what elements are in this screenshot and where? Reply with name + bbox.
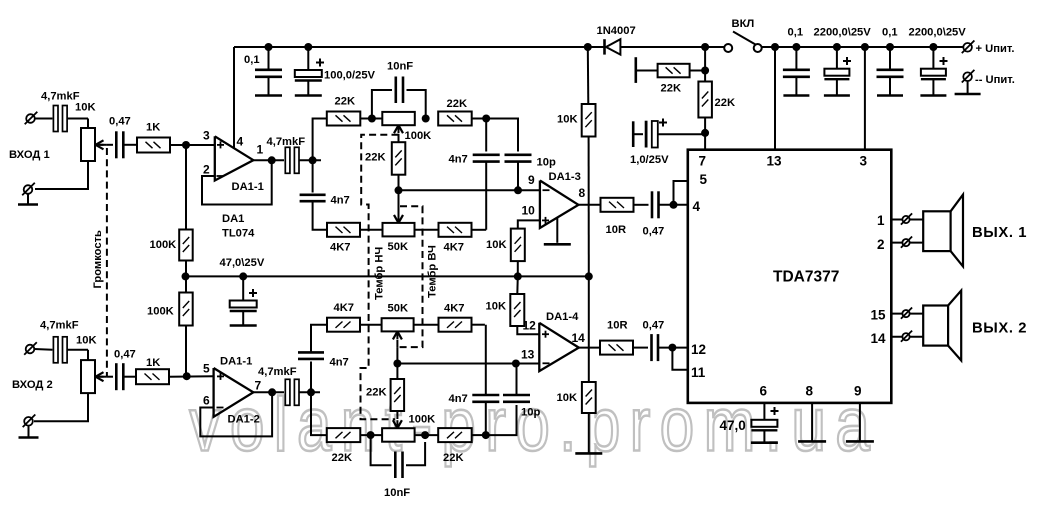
- label DA1-4: [546, 311, 579, 323]
- resistor 100K bias ch2: [179, 293, 193, 326]
- resistor 10R ch2: [600, 341, 633, 355]
- svg-text:0,1: 0,1: [244, 54, 260, 66]
- wire cap to pot 1: [67, 119, 88, 129]
- watermark volant-pro.prom.ua: [189, 382, 879, 467]
- label 0,47: [643, 226, 665, 238]
- resistor 10K divider lower: [582, 382, 596, 413]
- ground pin 9: [846, 440, 874, 443]
- node DA1-2 out: [268, 388, 276, 396]
- node F1 minus junction: [395, 186, 403, 194]
- op-amp DA1-3: [540, 181, 579, 229]
- svg-text:100K: 100K: [405, 130, 432, 142]
- resistor 22K standby-V: [698, 82, 712, 118]
- label 100,0/25V: [324, 70, 376, 82]
- label 10p: [537, 157, 556, 169]
- wire mid rail to 10K DA1-4: [516, 276, 519, 294]
- wire 100K to mid rail: [185, 261, 187, 277]
- label 0,47: [114, 349, 136, 361]
- svg-text:DA1-4: DA1-4: [546, 311, 579, 323]
- label 10K: [486, 301, 507, 313]
- capacitor 0,1 opamp rail: [255, 70, 282, 95]
- label + Uпит.: [976, 43, 1015, 55]
- svg-text:1N4007: 1N4007: [597, 25, 636, 37]
- wire 10p to minus wire ch1: [517, 162, 519, 191]
- svg-text:10K: 10K: [486, 239, 507, 251]
- label 50K: [388, 303, 409, 315]
- terminal pin 1: [901, 213, 912, 224]
- capacitor 2200,0\25V b: [921, 47, 948, 95]
- wire E1 to 10p corner: [486, 119, 518, 152]
- label 100K: [405, 130, 432, 142]
- label 10K: [75, 102, 96, 114]
- label pin 15: [871, 308, 887, 323]
- dashed mechanical link bass (Тембр НЧ): [361, 135, 399, 420]
- svg-text:22K: 22K: [661, 83, 682, 95]
- label DA1: [222, 213, 244, 225]
- label 47,0\25V rail: [220, 257, 265, 269]
- svg-text:10p: 10p: [521, 407, 540, 419]
- label pin 7: [699, 154, 707, 169]
- label 0,47: [109, 116, 131, 128]
- label 100K: [409, 414, 436, 426]
- svg-text:10R: 10R: [606, 224, 627, 236]
- wire 22K to pot ch2: [360, 434, 382, 436]
- wire 10nF right leg ch2: [406, 442, 425, 465]
- label 4,7mkF: [258, 366, 297, 378]
- wire B1 up to bass row: [313, 119, 327, 161]
- svg-text:DA1-1: DA1-1: [232, 181, 264, 193]
- label 4K7: [444, 303, 465, 315]
- wire DA1-2 output: [253, 391, 284, 393]
- svg-text:4n7: 4n7: [330, 357, 349, 369]
- label ВЫХ. 1: [972, 225, 1027, 241]
- node switch out: [771, 43, 779, 51]
- label 22K: [715, 97, 736, 109]
- svg-text:8: 8: [579, 186, 586, 200]
- label pin 4: [693, 199, 701, 214]
- capacitor 10p ch2: [503, 395, 530, 402]
- capacitor 0,1 supply a: [783, 47, 810, 95]
- svg-text:100,0/25V: 100,0/25V: [324, 70, 376, 82]
- capacitor 10nF ch1: [396, 77, 403, 104]
- ground 0,1: [255, 94, 282, 97]
- wire wiper to minus node ch2: [396, 347, 398, 363]
- label 10K: [76, 335, 97, 347]
- resistor 10K bias DA1-3: [511, 229, 525, 262]
- svg-text:1,0/25V: 1,0/25V: [630, 154, 669, 166]
- switch ВКЛ: [724, 32, 762, 53]
- label 22K: [661, 83, 682, 95]
- label pin 10: [522, 204, 536, 218]
- capacitor 2200,0\25V a: [824, 47, 851, 95]
- svg-text:4,7mkF: 4,7mkF: [258, 366, 297, 378]
- wire 10K lower to ground: [588, 413, 590, 453]
- wire pin 15: [891, 313, 923, 315]
- svg-text:4K7: 4K7: [330, 242, 351, 254]
- label pin 8: [579, 186, 586, 200]
- label pin 3: [860, 154, 868, 169]
- wire 22K-vert to 100K ch2: [393, 411, 402, 428]
- label 22K: [366, 387, 387, 399]
- label 50K: [388, 241, 409, 253]
- svg-text:DA1-1: DA1-1: [220, 356, 252, 368]
- label 2200,0\25V: [814, 27, 872, 39]
- wire DA1-1 feedback pin2 loop: [202, 160, 272, 204]
- resistor 22K bass-out ch1: [438, 112, 472, 126]
- terminal input 1 hot: [25, 112, 53, 125]
- wire 4K7 to 50K ch2: [360, 324, 382, 326]
- node mid-rail 10K bias: [514, 272, 522, 280]
- wire E2 up through 4n7: [485, 402, 487, 435]
- op-amp DA1-4: [539, 323, 579, 371]
- wire 10K to plus input DA1-4: [517, 326, 539, 334]
- svg-text:14: 14: [572, 331, 586, 345]
- wire 10K to mid rail: [517, 261, 519, 276]
- ground divider: [575, 452, 602, 455]
- svg-text:Тембр ВЧ: Тембр ВЧ: [427, 245, 439, 298]
- wire 10K to mid rail (crosses out wire): [588, 136, 590, 276]
- label pin 9: [528, 173, 535, 187]
- wire pin 1: [891, 219, 923, 221]
- svg-text:3: 3: [860, 154, 868, 169]
- label 4K7: [330, 242, 351, 254]
- svg-text:ВХОД 1: ВХОД 1: [9, 149, 50, 161]
- svg-text:5: 5: [700, 172, 708, 187]
- svg-text:14: 14: [871, 331, 887, 346]
- resistor 4K7 treble-in ch1: [327, 223, 360, 237]
- label 10R: [606, 224, 627, 236]
- label 4n7: [449, 154, 468, 166]
- ground pin6 cap: [751, 441, 778, 444]
- ground 100,0: [295, 94, 322, 97]
- label pin 13: [767, 154, 783, 169]
- label ВЫХ. 2: [972, 321, 1027, 337]
- label pin 6: [760, 384, 768, 399]
- node rail 0,1 b: [886, 43, 894, 51]
- label pin 2: [877, 237, 885, 252]
- svg-text:13: 13: [767, 154, 783, 169]
- svg-text:10: 10: [522, 204, 536, 218]
- svg-text:0,47: 0,47: [643, 320, 665, 332]
- wire DA1-1 output: [253, 159, 284, 161]
- node mid-rail 47,0\25V bias rail: [186, 275, 589, 277]
- wire cap to 1K ch1: [123, 144, 137, 146]
- label 2200,0\25V: [909, 27, 967, 39]
- terminal bar 1,0 gnd: [632, 121, 635, 147]
- label 22K: [365, 152, 386, 164]
- svg-text:4: 4: [693, 199, 701, 214]
- wire pin 8: [811, 403, 813, 441]
- label 10p: [521, 407, 540, 419]
- wire bar to 1,0 cap: [633, 133, 643, 135]
- label 10K: [557, 114, 578, 126]
- label pin 8: [806, 384, 814, 399]
- svg-text:4,7mkF: 4,7mkF: [40, 320, 79, 332]
- wire 50K to 4K7 ch1: [415, 229, 439, 231]
- label Тембр НЧ (rotated): [374, 247, 386, 300]
- svg-text:15: 15: [871, 308, 887, 323]
- wire top rail switch-to-terminal: [762, 46, 963, 48]
- svg-text:-- Uпит.: -- Uпит.: [975, 74, 1015, 86]
- label 10R: [607, 320, 628, 332]
- label 4,7mkF: [267, 136, 306, 148]
- wire 4K7 right to 4n7 column ch1: [472, 229, 487, 231]
- potentiometer 10K volume 1: [81, 128, 107, 161]
- capacitor 0,1 supply b: [877, 47, 904, 95]
- svg-text:22K: 22K: [365, 152, 386, 164]
- capacitor 47,0 pin6: [751, 407, 778, 442]
- wire 0,47 to pin4: [659, 204, 688, 206]
- label 22K: [447, 98, 468, 110]
- svg-text:13: 13: [521, 348, 535, 362]
- wire 10R to 0,47: [634, 204, 649, 206]
- label 4n7: [449, 393, 468, 405]
- svg-text:DA1-2: DA1-2: [228, 414, 260, 426]
- label pin 14: [572, 331, 586, 345]
- wire pin5 loop: [674, 181, 688, 205]
- svg-text:ВХОД 2: ВХОД 2: [12, 379, 53, 391]
- svg-text:ВЫХ. 2: ВЫХ. 2: [972, 321, 1027, 337]
- svg-text:6: 6: [203, 394, 210, 408]
- wire 0,1 cap drop: [268, 47, 270, 69]
- svg-text:22K: 22K: [332, 452, 353, 464]
- wire 22K to pot: [360, 118, 382, 120]
- potentiometer 50K treble ch1: [383, 223, 415, 237]
- IC U1 TDA7377 body: [688, 150, 892, 403]
- label 100K: [147, 306, 174, 318]
- svg-text:0,1: 0,1: [788, 27, 804, 39]
- ground -Uпит: [955, 93, 981, 96]
- label 10nF: [387, 61, 413, 73]
- ground 47,0 cap: [230, 324, 257, 327]
- svg-text:+ Uпит.: + Uпит.: [976, 43, 1015, 55]
- label 47,0: [720, 418, 746, 433]
- node B1: [309, 156, 317, 164]
- terminal pin 2: [901, 237, 912, 248]
- svg-text:4n7: 4n7: [449, 393, 468, 405]
- capacitor 1,0/25V: [646, 119, 667, 148]
- label ВХОД 2: [12, 379, 53, 391]
- wire DA1-2 feedback pin6 loop: [200, 392, 272, 436]
- ground pin 8: [798, 440, 826, 443]
- wire pin 6: [763, 403, 765, 420]
- op-amp DA1-1: [215, 136, 254, 180]
- resistor 10K divider upper: [582, 104, 596, 137]
- label 10K: [486, 239, 507, 251]
- label 1N4007: [597, 25, 636, 37]
- svg-text:1K: 1K: [146, 122, 160, 134]
- svg-text:TDA7377: TDA7377: [773, 269, 839, 286]
- svg-text:Тембр НЧ: Тембр НЧ: [374, 247, 386, 300]
- svg-text:47,0\25V: 47,0\25V: [220, 257, 265, 269]
- resistor 100K bias ch1: [179, 230, 193, 261]
- terminal pin 14: [901, 331, 912, 342]
- ground DA1-3: [544, 217, 571, 244]
- svg-text:9: 9: [854, 384, 862, 399]
- resistor 22K bass-in ch1: [327, 112, 361, 126]
- label pin 4: [237, 135, 244, 149]
- capacitor 0,47 ch1: [116, 131, 123, 158]
- label TL074: [222, 228, 255, 240]
- capacitor 4n7 ch1 right: [473, 155, 500, 162]
- wire mid rail to 100K: [185, 276, 187, 292]
- wire mid rail down to 10K lower: [588, 276, 590, 382]
- dashed mechanical link volume: [106, 148, 108, 377]
- wire 22K-vert top ch2: [396, 364, 398, 380]
- capacitor 0,47 out ch2: [652, 334, 659, 361]
- ground input 1: [18, 203, 38, 206]
- node rail 2200 b: [929, 43, 937, 51]
- label pin 14: [871, 331, 887, 346]
- svg-text:10nF: 10nF: [387, 61, 413, 73]
- svg-text:4,7mkF: 4,7mkF: [41, 91, 80, 103]
- wire minus bus ch2: [397, 363, 539, 365]
- label 4n7: [331, 195, 350, 207]
- terminal -Uпит: [962, 70, 975, 94]
- svg-text:TL074: TL074: [222, 228, 255, 240]
- resistor 1K ch1: [137, 138, 170, 153]
- node C2 junction: [367, 431, 375, 439]
- svg-text:22K: 22K: [447, 98, 468, 110]
- node 1,0 cap junction: [701, 129, 709, 137]
- node D2 junction: [421, 431, 429, 439]
- label pin 11: [691, 365, 706, 380]
- svg-text:10K: 10K: [557, 114, 578, 126]
- label 4K7: [444, 242, 465, 254]
- svg-text:DA1: DA1: [222, 213, 244, 225]
- potentiometer 10K volume 2: [81, 360, 107, 393]
- capacitor 4,7mkF coupling ch1: [285, 147, 299, 173]
- svg-text:4n7: 4n7: [449, 154, 468, 166]
- wire 4K7 to 50K ch1: [360, 229, 383, 231]
- label pin 7: [255, 379, 262, 393]
- ground 2200 b: [920, 94, 946, 97]
- wire pin11 loop: [672, 348, 687, 370]
- wire pin 9: [859, 403, 861, 441]
- svg-text:50K: 50K: [388, 303, 409, 315]
- svg-text:4,7mkF: 4,7mkF: [267, 136, 306, 148]
- node pin12 junction: [668, 344, 676, 352]
- wire E2 to 10p corner ch2: [486, 405, 517, 435]
- svg-text:0,1: 0,1: [882, 27, 898, 39]
- label 0,1: [244, 54, 260, 66]
- capacitor 4n7 ch2 right: [472, 395, 499, 402]
- wire bar to 22K: [636, 70, 658, 72]
- svg-text:7: 7: [699, 154, 707, 169]
- label Тембр ВЧ (rotated): [427, 245, 439, 298]
- wire pin 14: [891, 336, 923, 338]
- svg-text:6: 6: [760, 384, 768, 399]
- node rail 0,1 a: [792, 43, 800, 51]
- svg-text:4K7: 4K7: [444, 303, 465, 315]
- ground input 2: [19, 436, 39, 439]
- svg-text:10R: 10R: [607, 320, 628, 332]
- label pin 1: [257, 143, 264, 157]
- node rail after diode: [701, 43, 709, 51]
- wire 10p to minus wire ch2: [516, 364, 518, 396]
- capacitor 4n7 ch1 left: [300, 195, 326, 201]
- wire 22K to node: [690, 70, 706, 72]
- label 10K: [557, 392, 578, 404]
- svg-text:11: 11: [691, 365, 706, 380]
- terminal input 2 hot: [24, 342, 52, 355]
- wire minus bus ch1: [399, 189, 540, 191]
- node rail-100,0: [304, 43, 312, 51]
- node E2 junction: [482, 431, 490, 439]
- wire 1K to node A1: [170, 144, 215, 146]
- wire DA1-3 output: [578, 204, 600, 206]
- wire B2 up to 4n7: [310, 362, 312, 393]
- svg-text:1: 1: [257, 143, 264, 157]
- wire pot2 wiper to cap 0,47: [107, 376, 113, 378]
- svg-text:9: 9: [528, 173, 535, 187]
- label pin 3: [203, 129, 210, 143]
- svg-text:12: 12: [691, 342, 706, 357]
- node rail-divider: [584, 43, 592, 51]
- label DA1-3: [549, 171, 581, 183]
- node 10p minus junction ch2: [512, 360, 520, 368]
- svg-text:4: 4: [237, 135, 244, 149]
- label ВХОД 1: [9, 149, 50, 161]
- resistor 4K7 treble-out ch2: [439, 318, 472, 332]
- terminal pin 15: [901, 308, 912, 319]
- node A1 junction: [182, 141, 190, 149]
- label 4n7: [330, 357, 349, 369]
- svg-text:0,47: 0,47: [643, 226, 665, 238]
- label pin 5: [203, 362, 210, 376]
- op-amp DA1-2: [214, 368, 254, 417]
- capacitor 4,7mkF input 2: [53, 337, 67, 363]
- resistor 10K bias DA1-4: [510, 294, 524, 326]
- wire +V top rail (left section): [234, 47, 605, 148]
- label pin 13: [521, 348, 535, 362]
- wire 0,47 to pin12: [658, 347, 688, 349]
- wire 10nF right leg ch1: [407, 90, 426, 119]
- capacitor 100,0/25V: [295, 59, 324, 96]
- wire 22K to pin7 node: [704, 118, 706, 151]
- svg-text:10nF: 10nF: [384, 487, 410, 499]
- svg-text:10K: 10K: [557, 392, 578, 404]
- wire pin 2: [891, 242, 923, 244]
- node rail pin3: [861, 43, 869, 51]
- resistor 22K bass-in ch2: [327, 428, 361, 442]
- svg-text:100K: 100K: [147, 306, 174, 318]
- wire rail to 22K node: [704, 47, 706, 82]
- label pin 12: [523, 319, 537, 333]
- node pin4 junction: [670, 201, 678, 209]
- svg-text:4K7: 4K7: [334, 302, 355, 314]
- label 10nF: [384, 487, 410, 499]
- wire 4n7 to treble row ch1: [313, 201, 327, 230]
- svg-text:2200,0\25V: 2200,0\25V: [814, 27, 872, 39]
- wire 100,0 cap drop: [307, 47, 309, 70]
- node rail-0,1: [265, 43, 273, 51]
- wire 1,0 to node: [658, 133, 705, 135]
- wire 10nF left leg ch1: [372, 90, 392, 119]
- label 0,47: [643, 320, 665, 332]
- svg-text:4n7: 4n7: [331, 195, 350, 207]
- wire 4n7 to treble row right ch1: [485, 162, 487, 230]
- capacitor 4,7mkF coupling ch2: [285, 379, 299, 405]
- node DA1-1 out: [268, 156, 276, 164]
- node 22K top: [701, 67, 709, 75]
- label ВКЛ: [732, 18, 755, 30]
- wire 4n7 to treble row ch2: [311, 325, 327, 353]
- wire 50K to 4K7 ch2: [414, 324, 439, 326]
- node A2 junction: [183, 372, 191, 380]
- svg-text:100K: 100K: [150, 239, 177, 251]
- wire 100K to node A2: [185, 326, 187, 377]
